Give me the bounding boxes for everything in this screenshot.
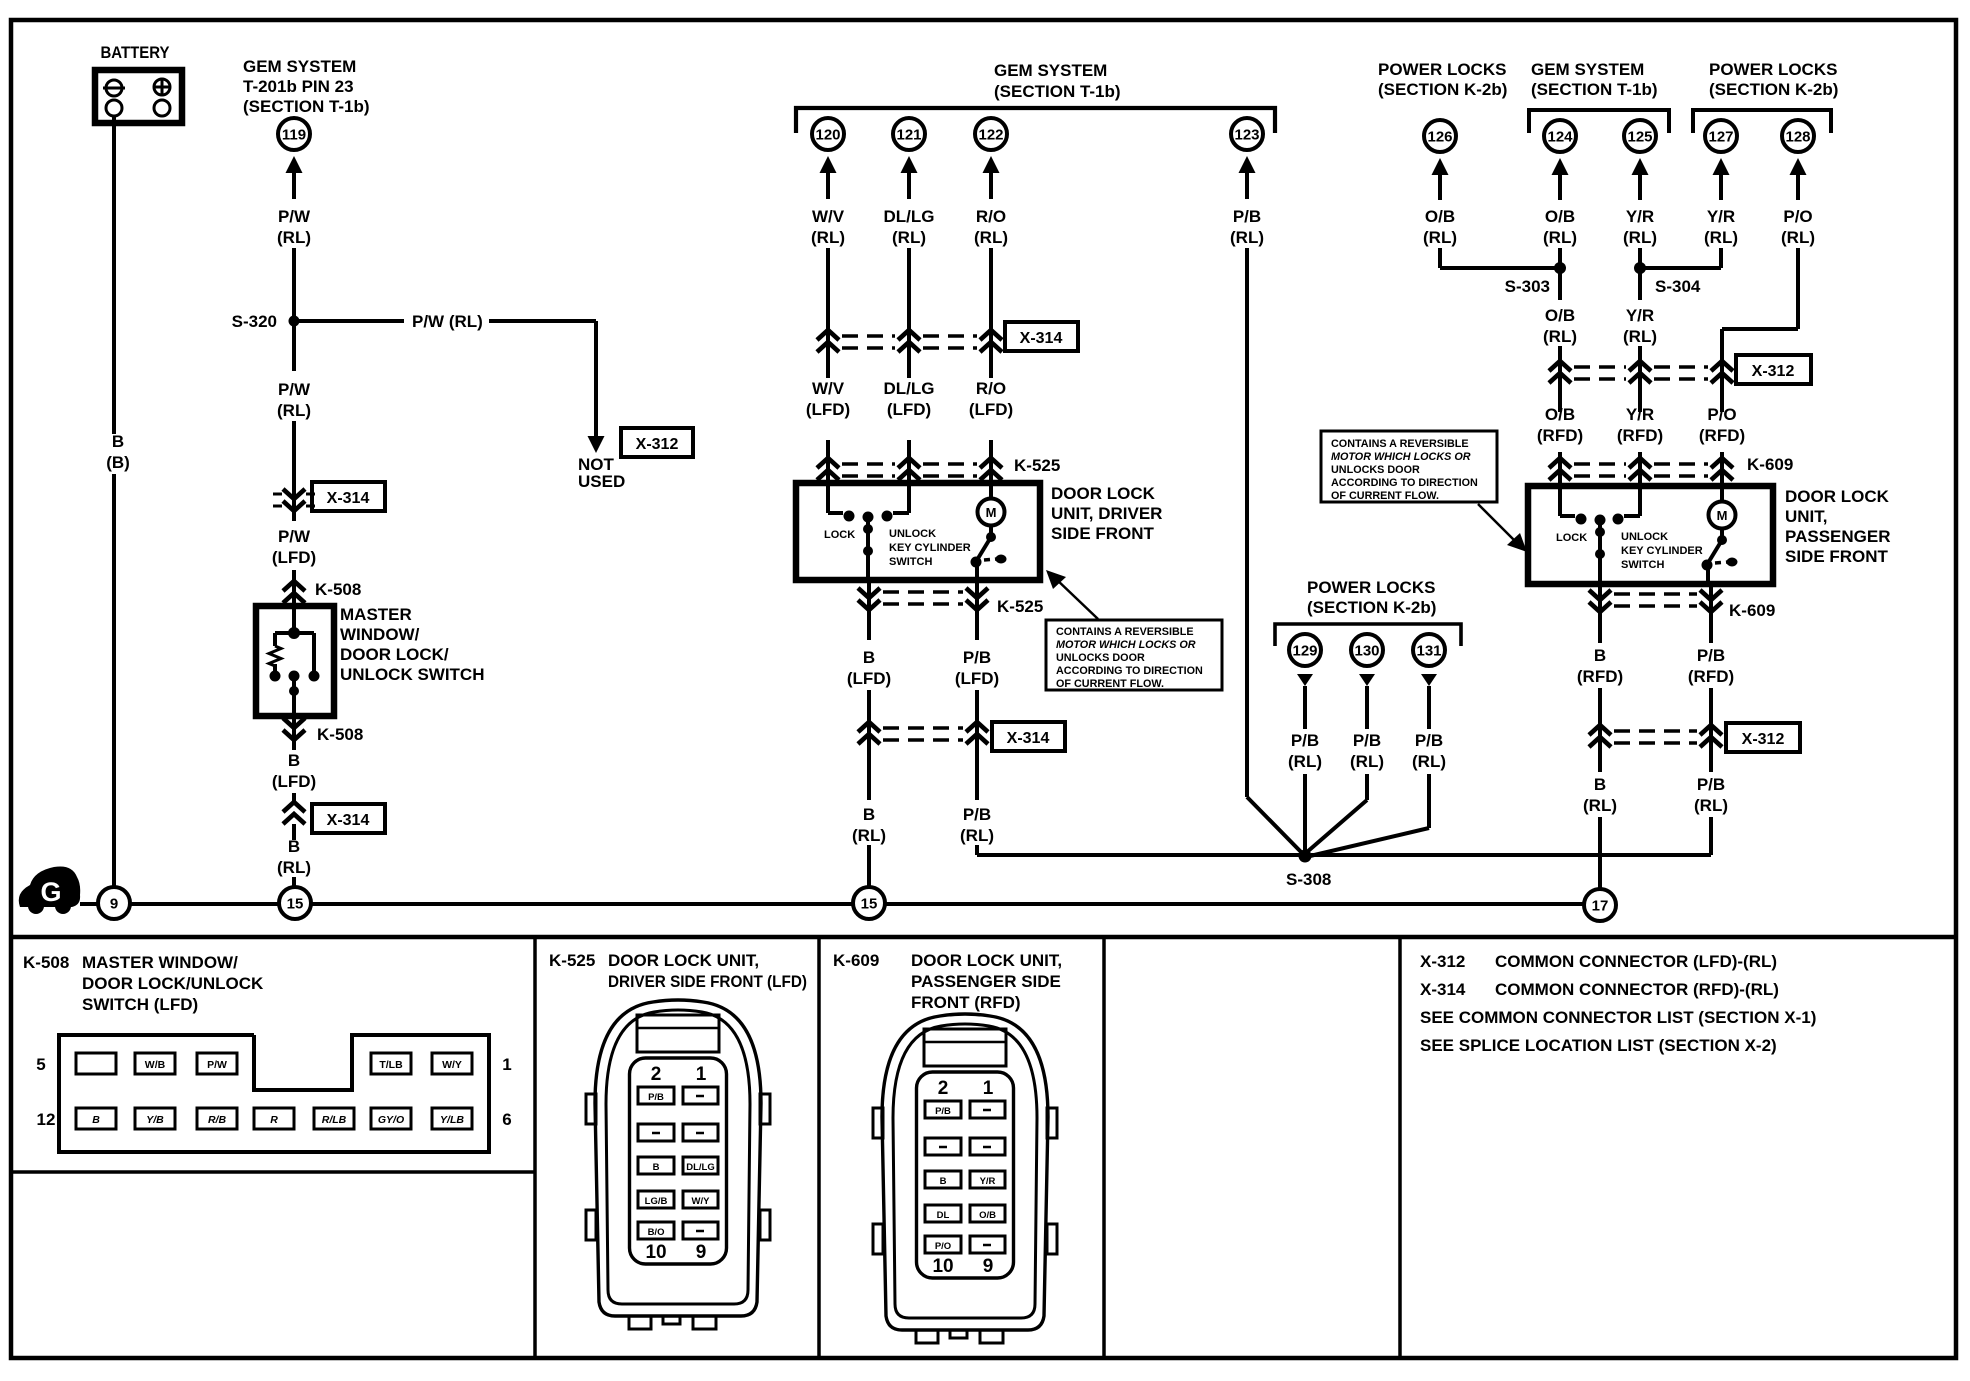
arrows to 124-128: [1432, 158, 1807, 200]
svg-text:GEM SYSTEM: GEM SYSTEM: [243, 57, 356, 76]
svg-text:R/LB: R/LB: [322, 1114, 347, 1126]
connector circle 125: [1624, 120, 1656, 152]
svg-text:B: B: [92, 1114, 100, 1126]
svg-text:X-312: X-312: [1742, 731, 1785, 748]
label B (RL) right: [1583, 775, 1617, 815]
svg-text:126: 126: [1427, 129, 1452, 146]
svg-text:R/B: R/B: [208, 1114, 227, 1126]
svg-text:X-312: X-312: [636, 436, 679, 453]
svg-text:P/B: P/B: [648, 1092, 664, 1103]
svg-text:O/B: O/B: [1545, 405, 1575, 424]
wires into passenger door lock unit: [1560, 452, 1722, 487]
svg-text:B: B: [863, 805, 875, 824]
svg-text:POWER LOCKS: POWER LOCKS: [1378, 60, 1506, 79]
svg-text:W/B: W/B: [145, 1059, 166, 1071]
wire 124 column: [1558, 248, 1562, 412]
label P/O (RL) 128: [1781, 207, 1815, 247]
svg-text:120: 120: [815, 127, 840, 144]
svg-text:P/W: P/W: [278, 380, 311, 399]
note arrow to passenger unit: [1478, 504, 1527, 552]
svg-text:(RL): (RL): [811, 228, 845, 247]
svg-text:X-314: X-314: [327, 812, 370, 829]
svg-text:B: B: [653, 1162, 660, 1173]
note box reversible motor right: [1321, 431, 1497, 502]
K-508 pin row 1: [36, 1053, 511, 1074]
connector crossing K-508 bottom: [283, 716, 363, 750]
svg-text:B: B: [863, 648, 875, 667]
splice S-320: [232, 312, 300, 331]
connector circle 127: [1705, 120, 1737, 152]
svg-text:P/B: P/B: [963, 648, 991, 667]
wires 129-131 upper: [1305, 686, 1429, 729]
svg-text:P/B: P/B: [935, 1106, 951, 1117]
K-609 panel header: [833, 951, 1062, 1012]
svg-text:UNLOCK: UNLOCK: [889, 528, 936, 540]
connector circle 123: [1231, 118, 1263, 150]
connector circle 131: [1413, 634, 1445, 666]
svg-text:(SECTION K-2b): (SECTION K-2b): [1378, 80, 1507, 99]
K-508 pinout header: [23, 953, 264, 1014]
svg-text:128: 128: [1785, 129, 1810, 146]
svg-text:(RL): (RL): [1704, 228, 1738, 247]
wire P/B (RL) right to S-308 bus: [1311, 817, 1711, 855]
svg-text:K-508: K-508: [23, 953, 69, 972]
svg-text:ACCORDING TO DIRECTION: ACCORDING TO DIRECTION: [1331, 477, 1478, 489]
battery: [95, 43, 182, 123]
master window/door lock/unlock switch K-508: [256, 606, 334, 716]
note box reversible motor left: [1046, 620, 1222, 690]
wire P/B (RL) to S-308 bus: [977, 845, 1300, 855]
svg-text:9: 9: [110, 896, 118, 913]
connector circle 119: [278, 118, 310, 150]
svg-text:KEY CYLINDER: KEY CYLINDER: [889, 542, 971, 554]
svg-text:GEM SYSTEM: GEM SYSTEM: [1531, 60, 1644, 79]
svg-text:T-201b PIN 23: T-201b PIN 23: [243, 77, 354, 96]
svg-text:X-312: X-312: [1420, 952, 1465, 971]
svg-text:MOTOR WHICH LOCKS OR: MOTOR WHICH LOCKS OR: [1331, 451, 1471, 463]
arrows to 120-123: [820, 156, 1256, 199]
svg-text:2: 2: [651, 1064, 662, 1085]
label door lock unit passenger side front: [1785, 487, 1891, 566]
svg-text:130: 130: [1354, 643, 1379, 660]
svg-text:SIDE FRONT: SIDE FRONT: [1051, 524, 1155, 543]
ground circle 9: [98, 887, 130, 919]
K-525 panel header: [549, 951, 807, 991]
common connector notes: [1420, 952, 1816, 1055]
svg-text:SIDE FRONT: SIDE FRONT: [1785, 547, 1889, 566]
svg-text:K-525: K-525: [1014, 456, 1060, 475]
connector crossing X-314 lower center: [858, 722, 988, 744]
connector box X-314 lower center: [992, 722, 1065, 751]
wires into driver door lock unit: [828, 440, 991, 484]
svg-text:KEY CYLINDER: KEY CYLINDER: [1621, 545, 1703, 557]
wires below driver unit: [869, 580, 977, 640]
svg-text:DL: DL: [937, 1210, 950, 1221]
connector circle 128: [1782, 120, 1814, 152]
wire and crossing X-314 left lower: [283, 793, 305, 840]
svg-text:(LFD): (LFD): [806, 400, 850, 419]
connector box X-314 left: [312, 482, 385, 511]
wire S-320 branch right P/W (RL): [299, 312, 605, 453]
arrowheads below 129-131: [1297, 674, 1437, 686]
svg-text:(SECTION T-1b): (SECTION T-1b): [994, 82, 1121, 101]
svg-text:W/V: W/V: [812, 207, 845, 226]
svg-text:W/Y: W/Y: [442, 1059, 462, 1071]
connector box X-312 lower right: [1726, 723, 1800, 752]
svg-text:BATTERY: BATTERY: [101, 43, 171, 62]
label P/B (RFD): [1688, 646, 1734, 686]
connector circle 122: [975, 118, 1007, 150]
svg-text:P/W (RL): P/W (RL): [412, 312, 483, 331]
svg-text:10: 10: [645, 1242, 666, 1263]
label R/O (RL): [974, 207, 1008, 247]
svg-text:UNLOCK: UNLOCK: [1621, 531, 1668, 543]
svg-text:Y/R: Y/R: [1626, 207, 1654, 226]
svg-text:1: 1: [696, 1064, 707, 1085]
svg-text:DL/LG: DL/LG: [686, 1162, 715, 1173]
svg-text:(RL): (RL): [1230, 228, 1264, 247]
svg-text:Y/LB: Y/LB: [440, 1114, 464, 1126]
svg-text:UNLOCKS DOOR: UNLOCKS DOOR: [1331, 464, 1420, 476]
svg-text:COMMON CONNECTOR (RFD)-(RL): COMMON CONNECTOR (RFD)-(RL): [1495, 980, 1779, 999]
svg-text:LOCK: LOCK: [1556, 532, 1587, 544]
header POWER LOCKS (SECTION K-2b) bottom: [1307, 578, 1436, 617]
svg-text:G: G: [40, 877, 61, 907]
svg-text:S-320: S-320: [232, 312, 277, 331]
connector crossing K-525 top: [817, 456, 1060, 480]
svg-text:(SECTION K-2b): (SECTION K-2b): [1709, 80, 1838, 99]
svg-text:(LFD): (LFD): [887, 400, 931, 419]
svg-text:FRONT (RFD): FRONT (RFD): [911, 993, 1021, 1012]
svg-text:W/V: W/V: [812, 379, 845, 398]
label Y/R (RL) 125: [1623, 207, 1657, 247]
svg-text:Y/R: Y/R: [1707, 207, 1735, 226]
svg-text:1: 1: [502, 1055, 511, 1074]
svg-text:(SECTION T-1b): (SECTION T-1b): [1531, 80, 1658, 99]
svg-text:(RFD): (RFD): [1537, 426, 1583, 445]
svg-text:Y/R: Y/R: [1626, 405, 1654, 424]
ground bus wire: [80, 902, 1584, 906]
svg-text:(RFD): (RFD): [1699, 426, 1745, 445]
svg-text:SWITCH: SWITCH: [889, 556, 932, 568]
svg-text:9: 9: [983, 1256, 994, 1277]
svg-text:DOOR LOCK UNIT,: DOOR LOCK UNIT,: [608, 951, 759, 970]
svg-text:(RFD): (RFD): [1577, 667, 1623, 686]
bracket POWER LOCKS right: [1693, 110, 1831, 133]
svg-text:Y/R: Y/R: [980, 1176, 996, 1187]
connector box X-314 left lower: [312, 804, 385, 833]
svg-text:POWER LOCKS: POWER LOCKS: [1709, 60, 1837, 79]
svg-text:DRIVER SIDE FRONT (LFD): DRIVER SIDE FRONT (LFD): [608, 972, 807, 991]
svg-text:(LFD): (LFD): [847, 669, 891, 688]
label Y/R (RL) mid: [1623, 306, 1657, 346]
svg-text:(RL): (RL): [1583, 796, 1617, 815]
svg-text:127: 127: [1708, 129, 1733, 146]
connector crossing X-312 right top: [1549, 361, 1733, 383]
K-609 connector drawing: [873, 1014, 1057, 1343]
label P/B (RL) 123: [1230, 207, 1264, 247]
svg-text:(RL): (RL): [277, 228, 311, 247]
svg-text:(RL): (RL): [1694, 796, 1728, 815]
svg-text:(LFD): (LFD): [272, 772, 316, 791]
svg-text:DOOR LOCK/UNLOCK: DOOR LOCK/UNLOCK: [82, 974, 264, 993]
svg-text:(SECTION T-1b): (SECTION T-1b): [243, 97, 370, 116]
svg-text:K-525: K-525: [549, 951, 595, 970]
wire battery B(B) down to ground circle 9: [112, 116, 116, 887]
door lock unit passenger side front K-609: [1528, 486, 1773, 584]
svg-text:Y/R: Y/R: [1626, 306, 1654, 325]
svg-text:LOCK: LOCK: [824, 529, 855, 541]
svg-text:P/B: P/B: [1697, 775, 1725, 794]
svg-text:(RL): (RL): [852, 826, 886, 845]
svg-text:(RL): (RL): [277, 401, 311, 420]
svg-text:15: 15: [861, 896, 878, 913]
svg-text:P/B: P/B: [1291, 731, 1319, 750]
label O/B (RL) 126: [1423, 207, 1457, 247]
svg-text:R/O: R/O: [976, 207, 1006, 226]
svg-text:WINDOW/: WINDOW/: [340, 625, 420, 644]
label O/B (RL) mid: [1543, 306, 1577, 346]
svg-text:UNIT, DRIVER: UNIT, DRIVER: [1051, 504, 1162, 523]
svg-text:12: 12: [37, 1110, 56, 1129]
label O/B (RL) 124: [1543, 207, 1577, 247]
label P/B (LFD): [955, 648, 999, 688]
svg-text:X-314: X-314: [1007, 730, 1050, 747]
wires to X-314 lower center: [869, 690, 977, 800]
svg-text:PASSENGER SIDE: PASSENGER SIDE: [911, 972, 1061, 991]
wire 127 to splice S-304: [1644, 248, 1721, 268]
note arrow to driver unit: [1046, 570, 1098, 619]
label P/W (RL) mid: [277, 380, 311, 420]
wire 119 column to S-320: [292, 248, 296, 316]
svg-text:129: 129: [1292, 643, 1317, 660]
svg-text:(RL): (RL): [892, 228, 926, 247]
bracket GEM right: [1529, 110, 1669, 133]
svg-text:5: 5: [36, 1055, 45, 1074]
connector circle 121: [893, 118, 925, 150]
connector crossing K-525 bottom: [858, 588, 1043, 616]
svg-text:(B): (B): [106, 453, 130, 472]
arrow to 119: [286, 156, 303, 199]
svg-text:R: R: [270, 1114, 278, 1126]
svg-text:DL/LG: DL/LG: [884, 379, 935, 398]
door lock unit driver side front K-525: [796, 483, 1040, 580]
labels P/B (RL) trio: [1288, 731, 1446, 771]
label DL/LG (RL): [884, 207, 935, 247]
svg-text:GY/O: GY/O: [378, 1114, 404, 1126]
wire 126 to splice S-303: [1440, 248, 1556, 268]
wires below passenger unit: [1600, 584, 1711, 643]
header GEM SYSTEM T-201b PIN 23 (SECTION T-1b): [243, 57, 370, 116]
svg-text:LG/B: LG/B: [645, 1196, 668, 1207]
svg-text:DOOR LOCK/: DOOR LOCK/: [340, 645, 449, 664]
label B (LFD) left: [272, 751, 316, 791]
label Y/R (RL) 127: [1704, 207, 1738, 247]
svg-text:P/O: P/O: [1783, 207, 1812, 226]
svg-text:X-314: X-314: [1420, 980, 1466, 999]
connector box X-312 top: [621, 428, 693, 457]
connector crossing X-314 center: [817, 330, 1002, 352]
label W/V (RL): [811, 207, 845, 247]
svg-text:GEM SYSTEM: GEM SYSTEM: [994, 61, 1107, 80]
svg-text:(SECTION K-2b): (SECTION K-2b): [1307, 598, 1436, 617]
svg-text:P/B: P/B: [963, 805, 991, 824]
svg-text:(RL): (RL): [1350, 752, 1384, 771]
svg-text:ACCORDING TO DIRECTION: ACCORDING TO DIRECTION: [1056, 665, 1203, 677]
splice S-303: [1505, 262, 1566, 296]
svg-text:B: B: [112, 432, 124, 451]
svg-text:17: 17: [1592, 898, 1609, 915]
label P/B (RL) right: [1694, 775, 1728, 815]
svg-text:K-609: K-609: [1729, 601, 1775, 620]
svg-text:UNIT,: UNIT,: [1785, 507, 1828, 526]
svg-text:(RL): (RL): [1543, 228, 1577, 247]
svg-text:(RL): (RL): [1623, 327, 1657, 346]
svg-text:(LFD): (LFD): [272, 548, 316, 567]
svg-text:CONTAINS A REVERSIBLE: CONTAINS A REVERSIBLE: [1056, 626, 1194, 638]
svg-text:(RL): (RL): [1412, 752, 1446, 771]
labels W/V DL/LG R/O (LFD): [806, 379, 1013, 419]
K-525 connector drawing: [586, 1000, 770, 1329]
svg-text:(RL): (RL): [960, 826, 994, 845]
connector crossing X-312 lower right: [1589, 725, 1722, 747]
svg-text:P/B: P/B: [1233, 207, 1261, 226]
ground circle 15 center: [853, 887, 885, 919]
svg-text:P/W: P/W: [207, 1059, 227, 1071]
svg-text:B: B: [1594, 646, 1606, 665]
svg-text:B: B: [288, 837, 300, 856]
label door lock unit driver side front: [1051, 484, 1162, 543]
svg-text:T/LB: T/LB: [379, 1059, 403, 1071]
svg-text:P/B: P/B: [1353, 731, 1381, 750]
svg-text:MOTOR WHICH LOCKS OR: MOTOR WHICH LOCKS OR: [1056, 639, 1196, 651]
wire to master switch: [292, 570, 296, 605]
label NOT USED: [578, 455, 625, 491]
svg-text:(RL): (RL): [1623, 228, 1657, 247]
connector box X-312 right top: [1736, 355, 1811, 384]
wire B (RL) into ground circle 15 center: [867, 845, 871, 887]
svg-text:P/W: P/W: [278, 527, 311, 546]
svg-text:K-609: K-609: [833, 951, 879, 970]
label P/B (RL) center: [960, 805, 994, 845]
svg-text:O/B: O/B: [979, 1210, 996, 1221]
svg-text:UNLOCK SWITCH: UNLOCK SWITCH: [340, 665, 484, 684]
wires to X-312 lower right: [1600, 688, 1711, 772]
connector circle 126: [1424, 120, 1456, 152]
svg-text:B: B: [940, 1176, 947, 1187]
ground symbol G car: [19, 866, 80, 914]
svg-text:B: B: [1594, 775, 1606, 794]
svg-text:O/B: O/B: [1545, 306, 1575, 325]
svg-text:S-304: S-304: [1655, 277, 1701, 296]
svg-text:124: 124: [1547, 129, 1573, 146]
svg-text:(RL): (RL): [974, 228, 1008, 247]
label P/W (RL): [277, 207, 311, 247]
labels O/B Y/R P/O (RFD): [1537, 405, 1745, 445]
svg-text:(RL): (RL): [1543, 327, 1577, 346]
svg-text:15: 15: [287, 896, 304, 913]
wire B (RL) into ground circle 17: [1598, 817, 1602, 888]
wire 125 column: [1638, 248, 1642, 412]
svg-text:K-525: K-525: [997, 597, 1043, 616]
svg-text:M: M: [986, 505, 997, 520]
svg-text:(RL): (RL): [1288, 752, 1322, 771]
label B (LFD) center: [847, 648, 891, 688]
bracket power locks bottom: [1275, 624, 1461, 646]
ground circle 15 left: [279, 887, 311, 919]
splice S-308: [1286, 850, 1331, 890]
svg-text:121: 121: [896, 127, 921, 144]
svg-text:DL/LG: DL/LG: [884, 207, 935, 226]
header GEM SYSTEM (SECTION T-1b) center: [994, 61, 1121, 101]
svg-text:131: 131: [1416, 643, 1441, 660]
svg-text:K-609: K-609: [1747, 455, 1793, 474]
connector circle 124: [1544, 120, 1576, 152]
svg-text:CONTAINS A REVERSIBLE: CONTAINS A REVERSIBLE: [1331, 438, 1469, 450]
svg-text:B/O: B/O: [648, 1227, 665, 1238]
svg-text:2: 2: [938, 1078, 949, 1099]
svg-text:DOOR LOCK UNIT,: DOOR LOCK UNIT,: [911, 951, 1062, 970]
svg-text:(LFD): (LFD): [955, 669, 999, 688]
svg-text:P/W: P/W: [278, 207, 311, 226]
svg-text:SWITCH: SWITCH: [1621, 559, 1664, 571]
connector crossing K-609 top: [1549, 455, 1793, 480]
svg-text:POWER LOCKS: POWER LOCKS: [1307, 578, 1435, 597]
svg-text:K-508: K-508: [317, 725, 363, 744]
svg-text:P/O: P/O: [1707, 405, 1736, 424]
label P/W (LFD): [272, 527, 316, 567]
svg-text:W/Y: W/Y: [692, 1196, 711, 1207]
connector circle 120: [812, 118, 844, 150]
bottom panel frame: [11, 937, 1956, 1358]
svg-text:COMMON CONNECTOR (LFD)-(RL): COMMON CONNECTOR (LFD)-(RL): [1495, 952, 1777, 971]
svg-text:OF CURRENT FLOW.: OF CURRENT FLOW.: [1331, 490, 1439, 502]
wires 129-131 converge to S-308: [1305, 774, 1429, 856]
svg-text:6: 6: [502, 1110, 511, 1129]
svg-text:P/B: P/B: [1697, 646, 1725, 665]
svg-text:SWITCH (LFD): SWITCH (LFD): [82, 995, 198, 1014]
svg-text:K-508: K-508: [315, 580, 361, 599]
svg-text:DOOR LOCK: DOOR LOCK: [1051, 484, 1156, 503]
svg-text:O/B: O/B: [1425, 207, 1455, 226]
svg-text:(RFD): (RFD): [1688, 667, 1734, 686]
label B (RFD): [1577, 646, 1623, 686]
svg-text:R/O: R/O: [976, 379, 1006, 398]
svg-text:DOOR LOCK: DOOR LOCK: [1785, 487, 1890, 506]
header GEM SYSTEM right: [1531, 60, 1658, 99]
svg-text:X-314: X-314: [1020, 330, 1063, 347]
svg-text:S-303: S-303: [1505, 277, 1550, 296]
svg-text:MASTER: MASTER: [340, 605, 412, 624]
svg-text:P/B: P/B: [1415, 731, 1443, 750]
svg-text:(RFD): (RFD): [1617, 426, 1663, 445]
svg-text:(RL): (RL): [1781, 228, 1815, 247]
svg-text:SEE COMMON CONNECTOR LIST (S: SEE COMMON CONNECTOR LIST (SECTION X-1): [1420, 1008, 1816, 1027]
ground circle 17: [1584, 889, 1616, 921]
svg-text:X-314: X-314: [327, 490, 370, 507]
svg-text:SEE SPLICE LOCATION LIST (SECT: SEE SPLICE LOCATION LIST (SECTION X-2): [1420, 1036, 1777, 1055]
svg-text:O/B: O/B: [1545, 207, 1575, 226]
svg-text:(RL): (RL): [277, 858, 311, 877]
svg-text:(LFD): (LFD): [969, 400, 1013, 419]
wire into ground circle 15: [292, 877, 296, 887]
header POWER LOCKS right 1: [1378, 60, 1507, 99]
svg-text:9: 9: [696, 1242, 707, 1263]
svg-text:UNLOCKS DOOR: UNLOCKS DOOR: [1056, 652, 1145, 664]
connector crossing K-508 top: [283, 580, 361, 603]
svg-text:119: 119: [282, 127, 306, 144]
svg-text:M: M: [1717, 508, 1728, 523]
